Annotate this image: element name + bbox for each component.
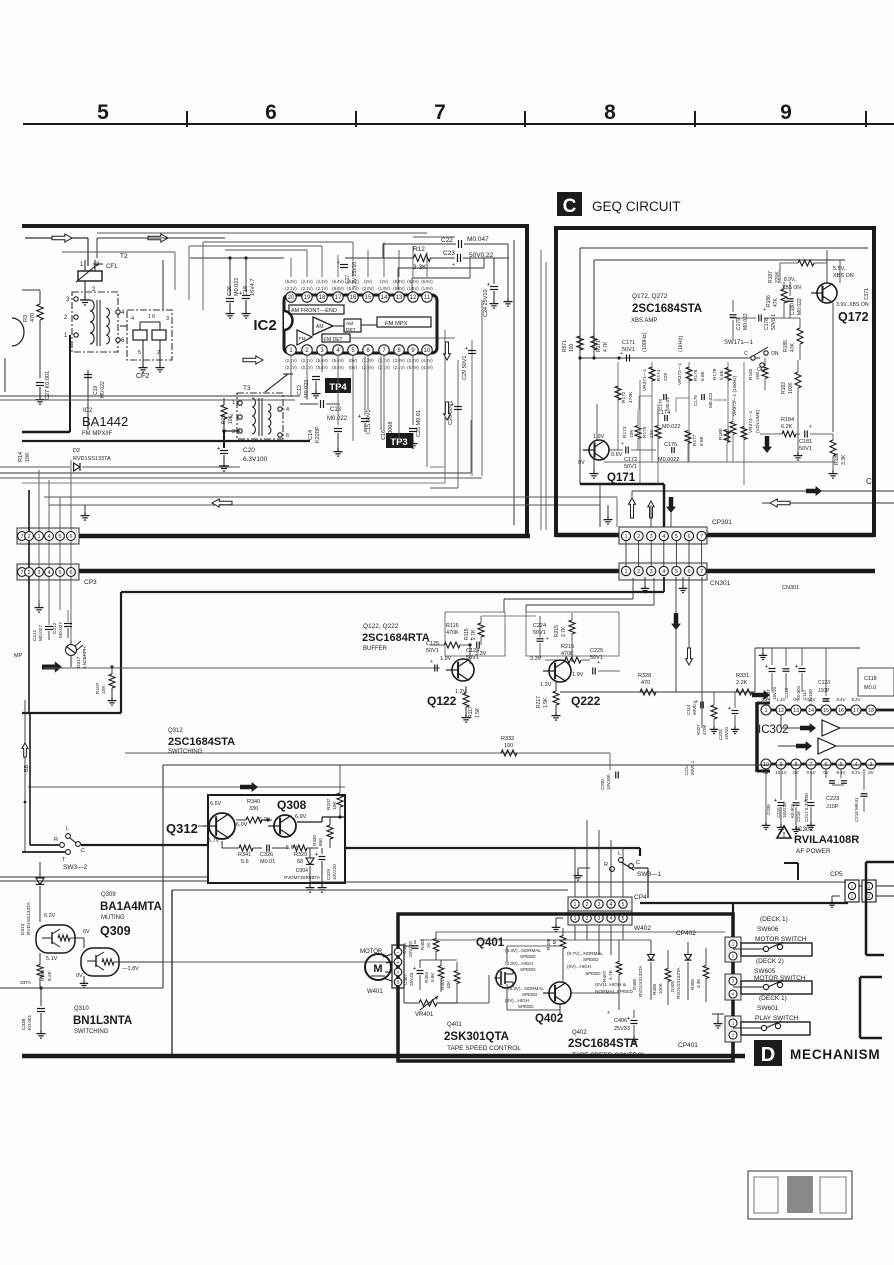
wire input top [25, 238, 88, 266]
svg-text:OFF: OFF [757, 367, 767, 373]
svg-text:(5.2V): (5.2V) [285, 279, 297, 284]
capacitor C329 10V220 [315, 848, 337, 884]
capacitor C216 K0.001 [790, 769, 801, 834]
svg-text:R327: R327 [696, 724, 701, 735]
svg-text:4: 4 [47, 534, 50, 540]
tuner block inner right line [513, 240, 515, 525]
switch SW601 [741, 1021, 810, 1035]
svg-text:D310: D310 [20, 923, 26, 935]
signal arrow left hollow r [770, 499, 790, 507]
IC302 amp1 [800, 720, 840, 736]
svg-text:R183: R183 [781, 382, 787, 394]
svg-text:470K: 470K [446, 630, 459, 636]
Q308 grounds [306, 884, 327, 892]
wire C330 [600, 753, 618, 790]
svg-text:XBS ON: XBS ON [833, 273, 854, 279]
mech vertical thick [732, 903, 734, 1016]
resistor R406 1M [546, 928, 566, 962]
CP301 wires up [632, 491, 671, 527]
capacitor C18 16V4.7 [239, 258, 256, 318]
svg-text:6.0V: 6.0V [259, 817, 271, 823]
svg-text:+: + [627, 1016, 630, 1022]
svg-text:5: 5 [138, 350, 141, 356]
label 33TA [20, 980, 32, 986]
svg-text:Q401: Q401 [447, 1022, 462, 1028]
svg-text:Q310: Q310 [74, 1006, 89, 1012]
diode D310 [20, 862, 44, 935]
svg-text:10K: 10K [228, 414, 234, 424]
resistor R329 68 [293, 845, 318, 865]
CP401 label [678, 1042, 698, 1049]
svg-text:C114: C114 [686, 704, 691, 715]
svg-text:IC2: IC2 [253, 317, 276, 334]
svg-text:ON: ON [771, 351, 779, 357]
svg-text:4: 4 [732, 992, 735, 997]
svg-text:1: 1 [764, 708, 767, 714]
svg-text:4: 4 [47, 570, 50, 576]
svg-text:R117: R117 [468, 706, 474, 718]
svg-text:SWITCHING: SWITCHING [168, 749, 203, 755]
Q171 label [607, 472, 636, 484]
svg-text:VR371—1: VR371—1 [642, 369, 648, 391]
capacitor C123 J10P [818, 648, 830, 701]
svg-text:+: + [621, 441, 624, 447]
svg-text:4.7K: 4.7K [603, 341, 609, 352]
transistor Q402 [543, 982, 571, 1004]
svg-text:Q309: Q309 [101, 892, 116, 898]
svg-text:50V0.1: 50V0.1 [771, 314, 777, 330]
svg-text:(5.4V): (5.4V) [332, 279, 344, 284]
resistor R187 220K [768, 260, 827, 283]
test point TP4 [325, 378, 351, 393]
connector tape right2 [725, 974, 741, 1000]
svg-text:BN1L3NTA: BN1L3NTA [73, 1015, 132, 1027]
capacitor C181 50V1 [799, 424, 833, 452]
T2 coils [90, 300, 109, 346]
svg-text:6.3V100: 6.3V100 [243, 456, 268, 463]
switch SW3-2 [54, 826, 85, 863]
svg-text:D405: D405 [670, 981, 675, 992]
svg-text:50V0.1: 50V0.1 [690, 760, 695, 775]
svg-text:+: + [774, 798, 777, 804]
svg-text:R175: R175 [642, 426, 648, 438]
gap vertical wires [541, 250, 546, 530]
wire rows bottom5 [22, 467, 445, 483]
svg-text:15: 15 [823, 708, 829, 714]
capacitor C171 50V1 [620, 340, 635, 362]
svg-text:Q312: Q312 [168, 728, 183, 734]
svg-text:R207: R207 [326, 798, 332, 810]
capacitor C224 50V1 [533, 616, 549, 658]
svg-text:M0.022: M0.022 [708, 392, 713, 408]
Q171 base wire [597, 404, 656, 450]
SW3-2 out wire [22, 845, 208, 852]
capacitor C179 M0.022 [730, 300, 750, 340]
svg-text:+: + [337, 260, 340, 266]
ceramic filter CF2 [127, 310, 172, 360]
svg-text:R186: R186 [766, 295, 772, 307]
Q309b labels [76, 966, 139, 979]
svg-text:R172: R172 [621, 391, 627, 403]
bracket right top [866, 862, 894, 955]
CP3 label [84, 579, 97, 586]
thick wire y903 [640, 902, 848, 904]
svg-text:6.6V: 6.6V [210, 801, 222, 807]
label Q309 type [100, 892, 162, 921]
svg-text:2SC1684STA: 2SC1684STA [568, 1038, 638, 1050]
svg-text:—1.8V: —1.8V [122, 966, 139, 972]
svg-text:C212: C212 [52, 622, 58, 634]
resistor R117 1.5K [462, 686, 482, 722]
wire rail R328 [560, 691, 755, 693]
svg-text:0.6V: 0.6V [611, 452, 623, 458]
resistor R174 22K [656, 369, 669, 381]
svg-text:BA1A4MTA: BA1A4MTA [100, 901, 162, 913]
Q308 title [277, 798, 307, 812]
svg-text:CP5: CP5 [830, 871, 843, 878]
wire y753 [125, 752, 610, 754]
Q172 label [838, 310, 869, 324]
IC2 pin voltages top [285, 279, 433, 291]
svg-text:5.6: 5.6 [241, 859, 249, 865]
svg-text:Q401: Q401 [476, 937, 505, 949]
svg-text:(1.9V): (1.9V) [378, 286, 390, 291]
svg-text:D317: D317 [76, 656, 82, 668]
capacitor C174 M0.022 [657, 410, 680, 430]
svg-text:470: 470 [641, 680, 650, 686]
svg-text:C: C [744, 351, 748, 357]
svg-text:AM: AM [316, 324, 324, 330]
W402 label [634, 925, 651, 932]
svg-text:R185: R185 [783, 340, 789, 352]
svg-text:M0.022: M0.022 [797, 298, 803, 315]
svg-text:SPEED: SPEED [520, 967, 536, 972]
svg-text:C17: C17 [345, 275, 351, 284]
capacitor C14 K220P [308, 356, 343, 456]
svg-text:R12: R12 [413, 246, 425, 253]
svg-text:R182: R182 [748, 368, 754, 380]
Q171 ground [590, 459, 599, 478]
ruler tick [524, 111, 526, 127]
wire Q308 out [297, 817, 345, 822]
resistor R332 100 [501, 736, 517, 756]
box C118 [858, 668, 894, 696]
svg-text:10V220: 10V220 [332, 864, 337, 880]
svg-text:R14: R14 [18, 452, 24, 462]
svg-text:(DECK 1): (DECK 1) [759, 995, 787, 1002]
Q402 label [535, 1013, 563, 1025]
svg-text:NORMAL SPEED: NORMAL SPEED [595, 989, 633, 995]
svg-text:R404: R404 [424, 972, 429, 983]
CP3 ground [60, 505, 90, 520]
svg-text:M0.01: M0.01 [260, 859, 275, 865]
potentiometer VR371-1 [642, 367, 655, 391]
EQ loop wires [639, 396, 727, 412]
svg-text:1: 1 [37, 534, 40, 540]
resistor R184 6.2K [760, 417, 800, 437]
svg-text:M0.0: M0.0 [864, 685, 876, 691]
capacitor C326 M0.01 [260, 845, 288, 866]
T2 pin circles [74, 297, 120, 342]
CP301 arrows [629, 497, 676, 518]
svg-text:0.2V: 0.2V [761, 697, 770, 702]
svg-text:+: + [452, 262, 455, 268]
svg-text:RVD1SS133TA: RVD1SS133TA [638, 965, 643, 997]
CP402 label [676, 930, 696, 937]
svg-text:2.7K: 2.7K [561, 626, 567, 637]
ruler number 8 [604, 101, 616, 124]
resistor R186 47K [766, 282, 787, 318]
svg-text:SPEED: SPEED [518, 1004, 534, 1009]
svg-text:100: 100 [504, 743, 513, 749]
resistor R107 10K [95, 665, 117, 705]
capacitor C223 J10P [826, 769, 847, 810]
svg-text:470K: 470K [628, 391, 634, 403]
capacitor C175 M0.022 [693, 392, 713, 408]
svg-text:MP: MP [14, 653, 23, 659]
svg-text:C13: C13 [330, 407, 342, 413]
CF2 top wire [162, 260, 164, 310]
motor pins [394, 948, 402, 986]
svg-text:C: C [563, 196, 577, 217]
LED D317 LN28RPH [66, 640, 89, 668]
svg-text:1.5K: 1.5K [543, 697, 549, 708]
GEQ inner bottom [580, 484, 664, 534]
arrow AMP [42, 661, 62, 672]
label Q310 type [73, 1006, 132, 1035]
wires to CP4 [575, 820, 623, 900]
svg-text:1.9V: 1.9V [593, 434, 605, 440]
svg-text:6: 6 [69, 570, 72, 576]
svg-text:+: + [728, 706, 731, 712]
svg-text:BB: BB [24, 764, 30, 772]
svg-text:16V220: 16V220 [782, 802, 787, 818]
CP5 stub wires [784, 863, 894, 896]
svg-text:M0.022: M0.022 [100, 381, 106, 398]
svg-text:XBS AMP: XBS AMP [631, 318, 657, 324]
svg-text:2: 2 [27, 570, 30, 576]
resistor R571 100 [562, 336, 583, 352]
wire top right corners [383, 244, 513, 306]
CP4 ground [552, 918, 563, 932]
signal arrow down2 [444, 402, 451, 420]
svg-text:R330: R330 [312, 835, 317, 846]
IC2 FM MPX block [377, 317, 431, 327]
CP301 label [712, 519, 732, 526]
wire thick y441 [22, 440, 310, 442]
svg-text:R571: R571 [562, 340, 568, 352]
Q401 label [476, 937, 505, 949]
capacitor C114 50V0.1 [686, 699, 703, 715]
resistor R19 10K [221, 398, 234, 431]
svg-text:CP401: CP401 [678, 1042, 698, 1049]
legend box [748, 1171, 852, 1219]
wire right column [445, 300, 482, 476]
resistor R116 470K [430, 623, 472, 648]
wire rail y258 [190, 256, 284, 259]
IC302 top pins [761, 705, 876, 715]
capacitor C337 16V10 [765, 648, 777, 700]
svg-text:4: 4 [131, 316, 134, 322]
svg-text:A: A [396, 970, 399, 975]
svg-text:2: 2 [586, 916, 589, 922]
resistor R177 6.8K [685, 430, 705, 462]
capacitor C25 M0.01 [409, 356, 423, 448]
svg-text:C224: C224 [533, 623, 546, 629]
ruler tick [186, 111, 188, 127]
svg-text:IC302: IC302 [796, 826, 814, 833]
svg-text:(3.3V)...NORMAL: (3.3V)...NORMAL [505, 948, 541, 953]
capacitor C172 50V1 [621, 441, 637, 470]
svg-text:C118: C118 [864, 676, 877, 682]
arrow R331 [752, 690, 770, 700]
resistor R330 680 [312, 817, 333, 848]
svg-text:22K: 22K [649, 429, 655, 438]
switch SW606 text [755, 916, 807, 943]
GEQ labels Q172 Q272 [632, 293, 668, 300]
label 100Hz [642, 332, 648, 352]
svg-text:VR401: VR401 [415, 1012, 434, 1018]
svg-text:8.4V: 8.4V [836, 697, 845, 702]
IC2 amp triangle AM [313, 317, 333, 335]
resistor R403 1K [420, 932, 439, 960]
svg-text:Q122: Q122 [427, 694, 457, 708]
svg-text:470: 470 [30, 313, 36, 322]
svg-text:GEQ CIRCUIT: GEQ CIRCUIT [592, 199, 681, 214]
CF2 elements [133, 322, 166, 340]
svg-text:3: 3 [650, 534, 653, 540]
svg-text:+: + [620, 351, 623, 357]
Q222 label [571, 694, 601, 708]
svg-text:3: 3 [598, 916, 601, 922]
svg-text:(100Hz): (100Hz) [642, 332, 648, 352]
T3 pins [230, 400, 289, 439]
capacitor C22 M0.047 [383, 236, 508, 248]
switch SW601 text [755, 995, 799, 1022]
motor wires [383, 954, 392, 981]
legend cell 2 filled [787, 1176, 813, 1213]
svg-text:18: 18 [868, 708, 874, 714]
resistor R405 3.3K [690, 948, 709, 1002]
CP3 wires down [29, 577, 71, 713]
svg-text:C326: C326 [260, 852, 273, 858]
connector tape right1 [725, 937, 741, 962]
diode D406 [632, 940, 655, 1000]
svg-text:1: 1 [574, 916, 577, 922]
svg-text:CP4: CP4 [634, 894, 647, 901]
connector CP4 row1 [568, 897, 632, 911]
resistor R188 3.3K [829, 434, 848, 478]
svg-text:C330: C330 [600, 779, 605, 790]
wire rows bottom1 [0, 395, 300, 397]
svg-text:5: 5 [622, 916, 625, 922]
svg-text:C179: C179 [736, 318, 742, 330]
svg-text:3: 3 [732, 979, 735, 984]
capacitor C176 M0.0022 [658, 442, 679, 463]
resistor R216 470K [545, 644, 590, 663]
svg-text:SPEED: SPEED [520, 954, 536, 959]
svg-text:SW606: SW606 [757, 926, 779, 933]
svg-text:50V1: 50V1 [426, 648, 439, 654]
SW3-2 box [0, 845, 208, 881]
svg-text:BA1442: BA1442 [82, 414, 128, 429]
svg-text:TAPE SPEED CONTROL: TAPE SPEED CONTROL [572, 1052, 646, 1059]
svg-text:50V1: 50V1 [622, 347, 635, 353]
bracket right bottom [860, 977, 882, 1038]
svg-text:(DECK 2): (DECK 2) [756, 958, 784, 965]
resistor R217 1.5K [536, 682, 561, 720]
op-amp IC302 bracket [757, 702, 770, 772]
resistor R185 47K [783, 318, 803, 360]
capacitor C117 6.3V100 [795, 648, 813, 706]
resistor R404 5.6K [424, 960, 444, 992]
svg-text:10K: 10K [101, 685, 107, 694]
svg-text:R216: R216 [561, 644, 574, 650]
signal arrow right fill [806, 486, 822, 496]
svg-text:+: + [358, 414, 361, 420]
svg-text:2SC1684STA: 2SC1684STA [168, 736, 235, 748]
bus bar 1 [79, 535, 874, 536]
svg-text:6: 6 [687, 569, 690, 575]
svg-text:R179: R179 [712, 368, 718, 380]
svg-text:C223: C223 [826, 796, 839, 802]
svg-text:17: 17 [335, 295, 342, 301]
svg-text:2SK301QTA: 2SK301QTA [444, 1031, 509, 1043]
svg-text:RVD1SS133TA: RVD1SS133TA [26, 901, 32, 935]
svg-text:2: 2 [637, 569, 640, 575]
svg-text:+: + [695, 699, 698, 705]
svg-text:+: + [809, 424, 812, 430]
capacitor C215 16V220 [774, 769, 787, 832]
svg-text:19: 19 [304, 295, 311, 301]
wire y882 [310, 881, 846, 883]
svg-text:C: C [81, 848, 85, 854]
IC2 top pins [286, 292, 432, 302]
wire rows bottom4 [0, 477, 482, 479]
legend cell 3 [820, 1177, 846, 1213]
GEQ exit wires [640, 380, 658, 484]
svg-text:3: 3 [232, 429, 235, 435]
IC302 amp2 [796, 738, 836, 754]
resistor R328 470 [638, 673, 656, 695]
switch SW3-1 [604, 851, 640, 871]
svg-text:4: 4 [662, 569, 665, 575]
tape block texts2 [568, 1030, 646, 1059]
capacitor C23 50V0.22 [443, 250, 509, 268]
svg-text:B: B [396, 980, 399, 985]
svg-text:10K: 10K [629, 429, 635, 438]
BB arrow up [22, 743, 30, 772]
section label C [557, 192, 582, 217]
svg-text:+: + [451, 402, 454, 408]
svg-text:Q172, Q272: Q172, Q272 [632, 293, 668, 300]
svg-text:+: + [413, 966, 416, 972]
label 8.9V XBS ON [782, 277, 801, 291]
arrow y787 [240, 782, 258, 792]
GEQ label 2SC1684STA [632, 303, 702, 315]
svg-text:0V: 0V [868, 770, 873, 775]
ground near CP301 [604, 505, 613, 524]
svg-text:3.3V: 3.3V [475, 651, 487, 657]
ruler tick [865, 111, 867, 127]
svg-text:Q309: Q309 [100, 924, 131, 938]
svg-text:2SC1684RTA: 2SC1684RTA [362, 632, 430, 644]
EQ network wires [618, 362, 744, 485]
ceramic filter CF1 [78, 260, 102, 296]
svg-text:!: ! [783, 832, 785, 839]
svg-text:C24 25V10: C24 25V10 [483, 289, 489, 317]
wire top to IC [97, 238, 225, 258]
